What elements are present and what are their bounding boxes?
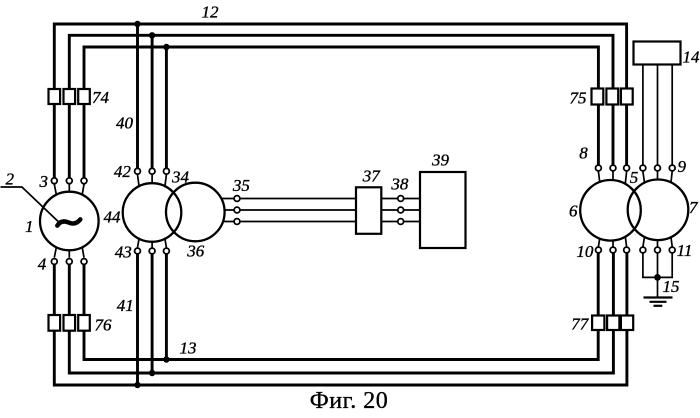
wire machine 6 to terminals 10 [598,236,626,247]
wire terminals 11 to ground junction [643,253,672,277]
wire terminals 3 to generator [54,184,84,195]
wire terminals 42 to transformer [138,175,167,188]
junction dot on bottom bus B [149,370,155,376]
wire 12 phase B (top bus, middle loop) [69,35,613,90]
wire block 37 to terminals 38 [381,199,397,222]
machine 6 (left circle) [580,180,641,241]
ground 15 symbol [644,298,673,306]
terminal 42c [164,168,170,174]
wire 13 phase A (bottom bus, outermost loop) [54,330,627,385]
wire terminals 10 to fuse 77 [598,253,627,316]
terminal 11b [655,247,661,253]
terminal 3b [66,178,72,184]
svg-text:3: 3 [38,172,48,191]
junction dot on bottom bus C [163,356,169,362]
terminal 35a [234,196,240,202]
wire block 14 to terminals 9 [643,65,672,165]
wire from fuse 74 to terminals 3 [54,105,84,179]
terminal 38a [398,196,404,202]
wire 40 (three verticals from top bus to transformer T1) [138,24,167,168]
fuse 76 (three cartridges) [49,315,90,331]
wire 41 (three verticals from transformer to bottom bus) [138,254,167,385]
terminal 4a [51,259,57,265]
terminal 43c [164,248,170,254]
svg-text:38: 38 [390,175,409,194]
junction dot on bus C [163,44,169,50]
terminal 10a [596,247,602,253]
junction dot at ground node [654,274,661,281]
terminal 8c [624,165,630,171]
wire 12 phase C (top bus, inner loop) [84,47,598,90]
terminal 10c [624,247,630,253]
terminal 3a [51,178,57,184]
transformer T1 secondary (circle 36) [166,183,225,242]
svg-text:12: 12 [202,3,220,22]
svg-text:11: 11 [677,241,693,260]
transformer T1 primary (circle 44) [123,183,182,242]
svg-text:41: 41 [117,296,134,315]
terminal 35b [234,207,240,213]
svg-text:Фиг. 20: Фиг. 20 [310,388,388,413]
svg-text:10: 10 [576,242,594,261]
wire terminals 4 to fuse 76 [54,265,84,316]
wire transformer output to terminals 35 [221,199,233,222]
wire terminals 38 to block 39 [404,199,420,222]
terminal 43b [149,248,155,254]
svg-text:40: 40 [116,114,134,133]
svg-text:2: 2 [6,170,15,189]
wire fuse 75 to terminals of motor M1 [598,105,626,166]
fuse 74 (three cartridges) [49,89,90,104]
wire terminals 35 to block 37 [240,199,356,222]
terminal 35c [234,219,240,225]
svg-text:36: 36 [186,242,205,261]
svg-text:77: 77 [571,315,590,334]
svg-text:15: 15 [663,277,680,296]
terminal 11a [640,247,646,253]
terminal 42b [149,168,155,174]
wire to ground [657,277,659,297]
junction dot on bottom bus A [134,382,140,388]
svg-text:39: 39 [431,151,450,170]
block 39 [420,172,466,248]
terminal 42a [135,168,141,174]
wire 13 phase B (bottom bus, middle loop) [69,330,613,373]
terminal 8a [596,165,602,171]
block 37 [356,187,381,234]
svg-text:5: 5 [630,168,639,187]
terminal 10b [610,247,616,253]
terminal 11c [669,247,675,253]
svg-text:44: 44 [104,208,122,227]
svg-text:8: 8 [579,144,588,163]
terminal 9c [669,165,675,171]
block 14 [634,42,681,65]
terminal 38b [398,207,404,213]
svg-text:75: 75 [570,89,587,108]
wire 13 phase C (bottom bus, inner loop) [84,330,598,360]
wire terminals 9 to machine 7 [643,171,672,183]
svg-text:9: 9 [677,157,686,176]
terminal 9a [640,165,646,171]
svg-text:7: 7 [689,198,699,217]
svg-text:76: 76 [95,316,113,335]
terminal 4c [81,259,87,265]
svg-text:34: 34 [171,168,190,187]
svg-text:74: 74 [92,88,110,107]
sine symbol inside generator [57,219,80,225]
fuse 75 (three cartridges) [592,89,633,105]
junction dot on bus B [149,32,155,38]
machine 7 (right circle) [628,180,689,241]
svg-text:37: 37 [362,167,382,186]
terminal 4b [66,259,72,265]
terminal 43a [135,248,141,254]
terminal 38c [398,219,404,225]
generator G1 (circle 1) [40,192,99,251]
svg-text:4: 4 [38,255,47,274]
svg-text:1: 1 [25,217,34,236]
terminal 3c [81,178,87,184]
wire generator to terminals 4 [54,247,84,258]
junction dot on bus A [134,21,140,27]
svg-text:13: 13 [180,339,197,358]
svg-text:42: 42 [114,162,132,181]
wire terminals 8 to machine 6 [598,171,626,184]
wire machine 7 to terminals 11 [643,237,672,247]
svg-text:35: 35 [232,176,250,195]
fuse 77 (three cartridges) [592,316,633,331]
svg-text:14: 14 [683,48,700,67]
svg-text:43: 43 [115,243,132,262]
wire transformer to terminals 43 [138,238,167,248]
terminal 9b [655,165,661,171]
terminal 8b [610,165,616,171]
svg-text:6: 6 [569,202,578,221]
wire 12 phase A (top bus, outermost loop) [54,24,626,90]
